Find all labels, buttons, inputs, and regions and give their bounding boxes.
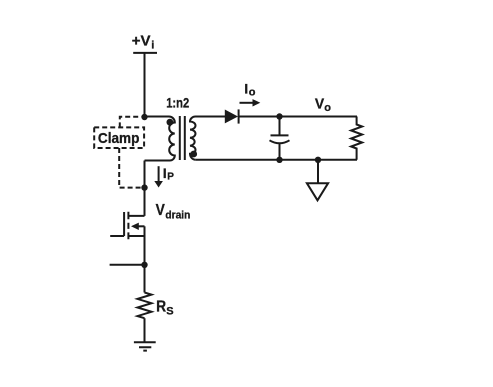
svg-text:P: P [167, 171, 174, 182]
ground secondary open triangle [307, 183, 328, 200]
clamp box dashed [94, 127, 144, 148]
transistor Q1 N-MOSFET [123, 212, 125, 236]
svg-text:i: i [151, 39, 154, 51]
node capacitor top [276, 113, 282, 119]
wire stub left of source node [110, 264, 145, 266]
dashed wire clamp bottom [119, 148, 141, 188]
wire primary bottom to clamp node [144, 161, 146, 188]
svg-text:I: I [244, 80, 248, 96]
node primary top junction [141, 114, 147, 120]
label 1:n2 [166, 95, 189, 111]
svg-text:o: o [324, 102, 331, 114]
label Vdrain [156, 202, 191, 222]
svg-text:S: S [166, 306, 173, 318]
primary phase dot [167, 119, 174, 126]
wire to secondary ground [317, 160, 319, 183]
diode D1 [225, 110, 238, 124]
wire clamp node to MOSFET drain [144, 188, 146, 216]
label RS [156, 298, 174, 317]
ground primary [134, 342, 156, 350]
transformer T1 secondary winding [190, 117, 196, 160]
wire bottom rail secondary [196, 159, 357, 161]
svg-text:V: V [315, 95, 324, 112]
node ground junction [315, 157, 321, 163]
power rail bar +Vi [133, 52, 157, 54]
capacitor C1 [270, 117, 290, 161]
dashed wire clamp top [120, 117, 141, 128]
node source junction [141, 262, 147, 268]
label +Vi [132, 32, 154, 51]
wire RS to ground [144, 318, 146, 342]
svg-text:R: R [156, 298, 166, 315]
label IP with arrow [158, 166, 160, 181]
label Io with arrow [244, 80, 256, 98]
transformer core [180, 116, 185, 160]
svg-text:o: o [249, 86, 256, 98]
node clamp bottom junction [141, 184, 147, 190]
secondary phase dot [190, 151, 197, 158]
resistor R load [351, 117, 362, 160]
svg-text:drain: drain [165, 210, 190, 222]
transformer T1 primary winding [145, 117, 175, 161]
label Clamp [98, 130, 139, 147]
resistor RS [138, 293, 152, 319]
wire secondary top to diode [196, 116, 226, 118]
svg-text:+V: +V [132, 32, 151, 49]
svg-text:1:n2: 1:n2 [166, 95, 189, 111]
wire +Vi to primary top node [144, 53, 146, 117]
label Vo [315, 95, 331, 114]
svg-text:I: I [163, 165, 167, 181]
node capacitor bottom [276, 157, 282, 163]
svg-text:V: V [156, 202, 165, 219]
svg-text:Clamp: Clamp [98, 130, 139, 147]
wire source to RS [144, 265, 146, 293]
wire diode to load [239, 116, 357, 118]
